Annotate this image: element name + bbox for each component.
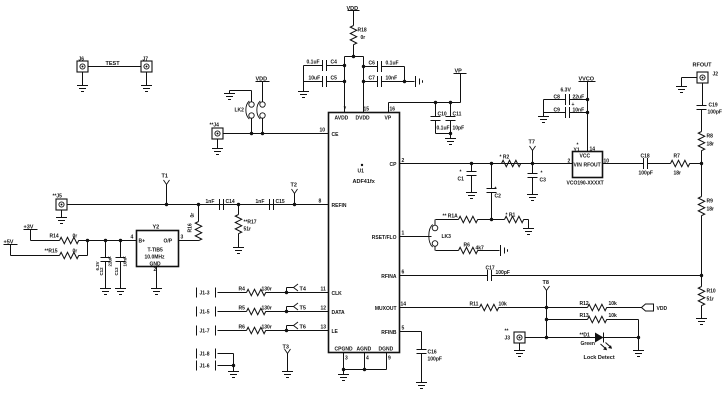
svg-text:T-TIB5: T-TIB5: [148, 248, 163, 254]
svg-text:10: 10: [320, 128, 326, 134]
svg-text:MUXOUT: MUXOUT: [375, 306, 397, 312]
svg-text:R4: R4: [239, 287, 246, 293]
svg-text:O/P: O/P: [164, 239, 173, 245]
svg-text:0r: 0r: [73, 249, 78, 255]
svg-text:LE: LE: [332, 329, 339, 335]
svg-text:J6: J6: [79, 57, 85, 63]
svg-text:VDD: VDD: [347, 6, 359, 12]
svg-text:100pF: 100pF: [496, 270, 510, 276]
svg-text:13: 13: [321, 325, 327, 331]
svg-text:C5: C5: [331, 76, 338, 82]
svg-text:C9: C9: [554, 108, 561, 114]
svg-text:4: 4: [131, 235, 134, 241]
svg-text:130r: 130r: [262, 306, 272, 312]
svg-text:4: 4: [366, 356, 369, 362]
svg-text:T4: T4: [300, 287, 307, 293]
svg-text:T2: T2: [291, 183, 297, 189]
svg-text:**R15: **R15: [45, 249, 58, 255]
svg-text:18r: 18r: [674, 171, 682, 177]
svg-text:J2: J2: [713, 72, 719, 78]
svg-text:6.3V: 6.3V: [561, 88, 572, 94]
svg-text:T1: T1: [162, 174, 168, 180]
svg-text:Green: Green: [581, 341, 595, 347]
svg-text:J1-8: J1-8: [200, 352, 210, 358]
svg-text:**: **: [505, 329, 509, 335]
svg-text:22uF: 22uF: [573, 95, 585, 101]
svg-text:C8: C8: [554, 95, 561, 101]
svg-text:130r: 130r: [262, 287, 272, 293]
svg-text:REFIN: REFIN: [332, 203, 347, 209]
svg-text:* R2: * R2: [500, 155, 510, 161]
svg-text:9: 9: [388, 356, 391, 362]
svg-text:10k: 10k: [499, 302, 508, 308]
svg-text:R13: R13: [580, 313, 589, 319]
svg-text:RFOUT: RFOUT: [693, 63, 713, 69]
svg-text:10nF: 10nF: [573, 108, 585, 114]
svg-text:R14: R14: [50, 234, 59, 240]
svg-text:J1-5: J1-5: [200, 310, 210, 316]
svg-text:16: 16: [390, 107, 396, 113]
svg-text:10k: 10k: [609, 301, 618, 307]
svg-text:C2: C2: [495, 194, 502, 200]
svg-text:* R1: * R1: [506, 213, 516, 219]
svg-text:CPGND: CPGND: [335, 347, 353, 353]
svg-text:C14: C14: [226, 199, 235, 205]
svg-text:C3: C3: [540, 178, 547, 184]
svg-text:ADF41fx: ADF41fx: [353, 179, 376, 185]
svg-text:T3: T3: [283, 345, 289, 351]
svg-text:TEST: TEST: [106, 61, 121, 67]
svg-text:R8: R8: [707, 134, 714, 140]
svg-text:C16: C16: [428, 350, 437, 356]
svg-text:R6: R6: [464, 243, 471, 249]
svg-text:10k: 10k: [609, 313, 618, 319]
svg-text:0r: 0r: [73, 234, 78, 240]
svg-text:0.1uF: 0.1uF: [386, 61, 399, 67]
svg-text:51r: 51r: [244, 227, 252, 233]
svg-text:LK3: LK3: [442, 234, 452, 240]
svg-text:AVDD: AVDD: [335, 116, 349, 122]
svg-text:C11: C11: [453, 112, 462, 118]
svg-text:14: 14: [590, 147, 596, 153]
svg-text:C12: C12: [99, 267, 104, 276]
svg-text:130r: 130r: [262, 325, 272, 331]
svg-text:**R17: **R17: [244, 220, 257, 226]
svg-text:5: 5: [402, 326, 405, 332]
svg-text:** R1A: ** R1A: [443, 214, 459, 220]
svg-text:100pF: 100pF: [708, 110, 722, 116]
svg-text:R6: R6: [239, 325, 246, 331]
svg-text:R7: R7: [674, 154, 681, 160]
svg-text:18r: 18r: [707, 207, 715, 213]
svg-text:0.1uF: 0.1uF: [437, 126, 450, 132]
svg-text:22uF: 22uF: [108, 256, 113, 267]
svg-text:10nF: 10nF: [386, 76, 398, 82]
svg-text:Lock Detect: Lock Detect: [584, 355, 615, 361]
svg-text:VIN: VIN: [574, 163, 583, 169]
svg-text:**D1: **D1: [580, 333, 591, 339]
svg-text:C18: C18: [641, 154, 650, 160]
svg-text:12: 12: [321, 306, 327, 312]
svg-text:C17: C17: [486, 266, 495, 272]
svg-text:J3: J3: [505, 336, 511, 342]
svg-text:11: 11: [321, 287, 327, 293]
svg-text:8: 8: [319, 199, 322, 205]
svg-text:15: 15: [364, 107, 370, 113]
svg-text:0r: 0r: [361, 35, 366, 41]
svg-text:100pF: 100pF: [639, 171, 653, 177]
svg-text:LK2: LK2: [235, 108, 245, 114]
svg-text:C7: C7: [369, 76, 376, 82]
svg-text:J1-6: J1-6: [200, 364, 210, 370]
svg-text:RFOUT: RFOUT: [584, 163, 601, 169]
svg-text:C6: C6: [369, 61, 376, 67]
svg-text:B+: B+: [139, 239, 146, 245]
svg-text:10.0MHz: 10.0MHz: [145, 255, 166, 261]
svg-text:U1: U1: [358, 169, 365, 175]
svg-text:VP: VP: [385, 116, 392, 122]
svg-text:T5: T5: [300, 306, 306, 312]
svg-text:AGND: AGND: [357, 347, 372, 353]
svg-text:C19: C19: [709, 103, 718, 109]
svg-text:DGND: DGND: [379, 347, 394, 353]
svg-text:6: 6: [402, 270, 405, 276]
svg-text:*: *: [541, 171, 543, 177]
svg-text:CLK: CLK: [332, 291, 343, 297]
svg-text:RFINA: RFINA: [381, 274, 397, 280]
svg-text:51r: 51r: [707, 297, 715, 303]
svg-text:3: 3: [181, 235, 184, 241]
svg-text:10pF: 10pF: [453, 126, 465, 132]
svg-text:R9: R9: [707, 199, 714, 205]
svg-text:T8: T8: [543, 280, 549, 286]
svg-text:C1: C1: [458, 177, 465, 183]
svg-text:*: *: [495, 187, 497, 193]
svg-text:VCO190-XXXXT: VCO190-XXXXT: [567, 181, 604, 187]
svg-text:R18: R18: [358, 28, 367, 34]
svg-text:J1-7: J1-7: [200, 329, 210, 335]
svg-text:1nF: 1nF: [256, 199, 265, 205]
svg-text:J1-3: J1-3: [200, 291, 210, 297]
svg-text:10nF: 10nF: [123, 256, 128, 267]
svg-text:C10: C10: [438, 112, 447, 118]
svg-text:R5: R5: [239, 306, 246, 312]
svg-text:C4: C4: [331, 60, 338, 66]
svg-text:C13: C13: [114, 267, 119, 276]
svg-text:Y2: Y2: [153, 225, 160, 231]
svg-text:*: *: [460, 170, 462, 176]
svg-text:10uF: 10uF: [309, 76, 321, 82]
svg-text:1: 1: [402, 231, 405, 237]
svg-text:R11: R11: [470, 302, 479, 308]
svg-text:T7: T7: [529, 140, 535, 146]
svg-text:DATA: DATA: [332, 310, 346, 316]
svg-text:RFINB: RFINB: [381, 330, 397, 336]
svg-text:R12: R12: [580, 301, 589, 307]
svg-text:VCC: VCC: [580, 154, 591, 160]
svg-text:VDD: VDD: [657, 306, 668, 312]
svg-text:0r: 0r: [190, 213, 196, 218]
svg-text:14: 14: [401, 302, 407, 308]
svg-text:18r: 18r: [707, 142, 715, 148]
svg-text:DVDD: DVDD: [356, 116, 371, 122]
svg-text:R16: R16: [188, 223, 194, 232]
svg-text:CP: CP: [390, 162, 398, 168]
svg-text:1nF: 1nF: [206, 199, 215, 205]
svg-text:R10: R10: [707, 289, 716, 295]
svg-text:2: 2: [568, 159, 571, 165]
svg-text:100pF: 100pF: [428, 357, 442, 363]
svg-text:T6: T6: [300, 325, 306, 331]
svg-text:3: 3: [345, 356, 348, 362]
svg-text:CE: CE: [332, 132, 340, 138]
svg-text:7: 7: [344, 107, 347, 113]
svg-text:RSET/FLO: RSET/FLO: [372, 235, 397, 241]
svg-text:J7: J7: [143, 57, 149, 63]
svg-text:C15: C15: [276, 199, 285, 205]
svg-text:0.1uF: 0.1uF: [307, 60, 320, 66]
